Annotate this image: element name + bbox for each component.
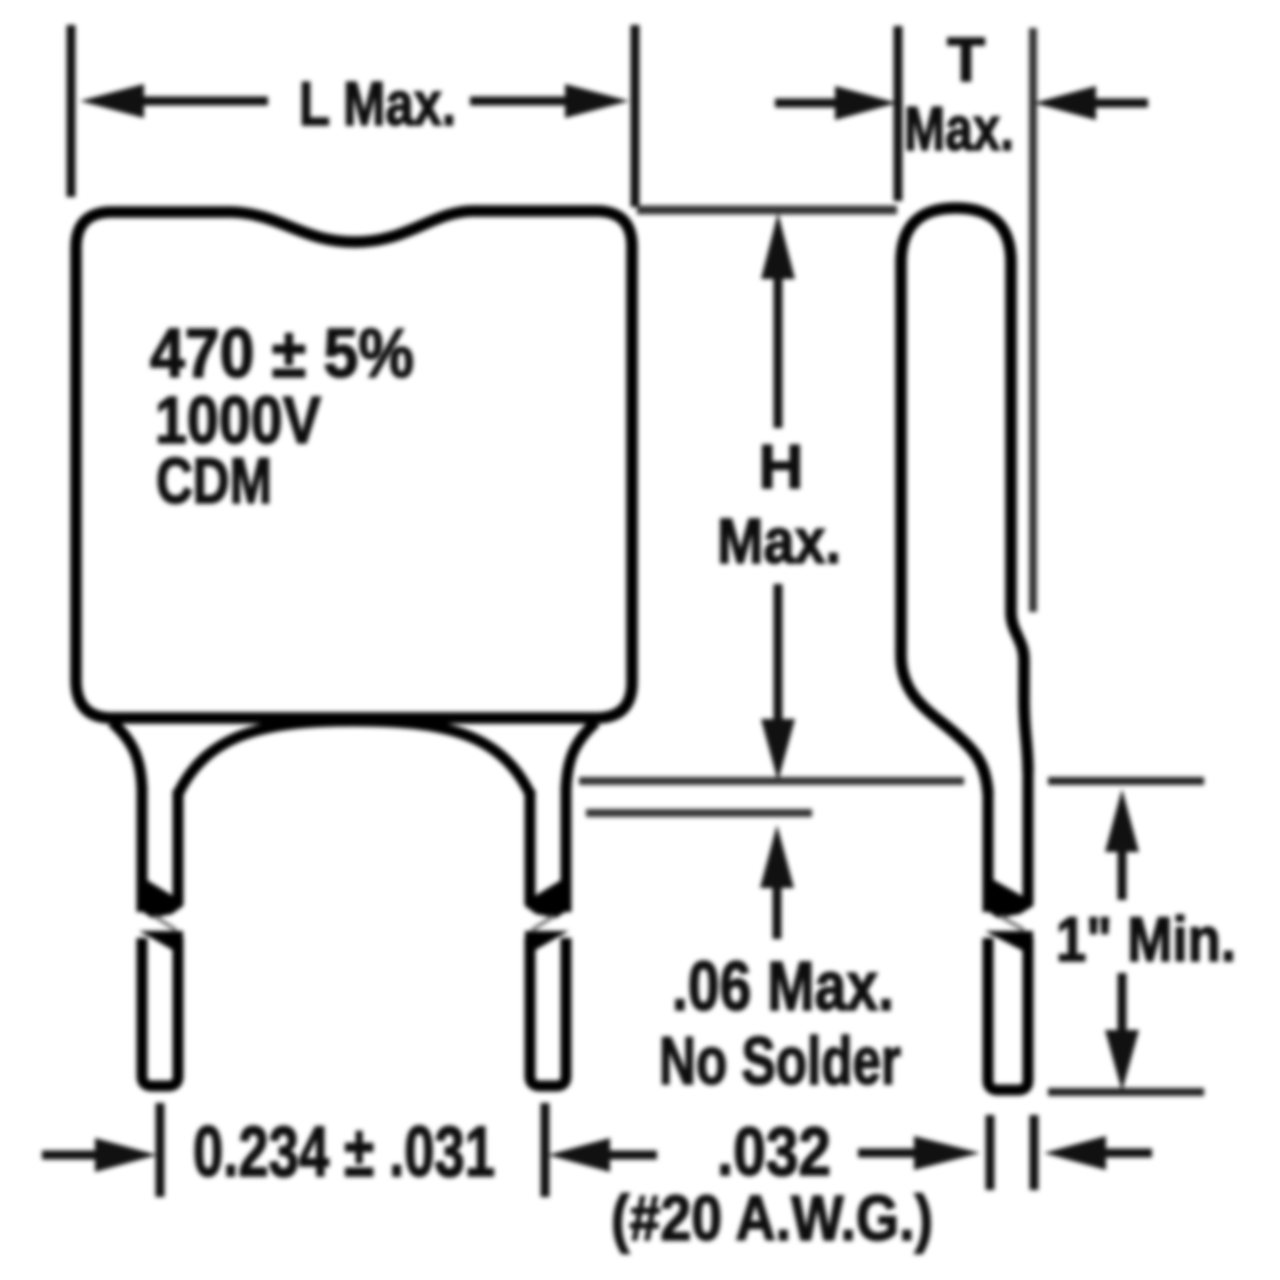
svg-text:.032: .032 [717, 1113, 831, 1190]
L Max right extension line [631, 25, 640, 207]
0.234 right tick [541, 1103, 550, 1197]
lead 1 crimp lower wedge [139, 931, 183, 956]
T Max right arrow [1034, 86, 1096, 120]
svg-text:H: H [759, 433, 804, 502]
inner arch between leads [178, 721, 530, 794]
lead 2 lower segment [530, 938, 566, 1086]
svg-text:0.234 ± .031: 0.234 ± .031 [193, 1113, 495, 1192]
H Max dimension arrow down [774, 584, 783, 729]
lead 2 crimp lower wedge [525, 931, 569, 956]
side lead crimp neck [1000, 916, 1024, 930]
H Max dimension arrow up [761, 213, 795, 279]
capacitor body side view [901, 208, 1028, 794]
side lead lower segment [988, 938, 1028, 1090]
.032 right tick [1030, 1115, 1039, 1190]
svg-text:L Max.: L Max. [299, 70, 456, 139]
.032 right arrow [1044, 1136, 1106, 1170]
1 inch Min bottom tick [1048, 1088, 1204, 1096]
1 inch Min arrow up [1105, 789, 1139, 852]
1 inch Min top tick [1048, 777, 1204, 785]
lead 2 upper segment [561, 786, 572, 912]
svg-text:(#20 A.W.G.): (#20 A.W.G.) [611, 1182, 933, 1254]
lead 2 crimp upper wedge [525, 874, 571, 918]
svg-text:CDM: CDM [156, 444, 272, 517]
svg-text:Max.: Max. [904, 95, 1014, 164]
side lead crimp lower wedge [985, 931, 1033, 956]
capacitor body front view [76, 211, 632, 718]
lead 1 crimp upper wedge [137, 874, 183, 918]
L Max dimension line left arrow [80, 84, 144, 118]
svg-text:Max.: Max. [717, 505, 841, 577]
L Max left extension line [67, 25, 76, 197]
svg-text:470 ± 5%: 470 ± 5% [150, 314, 414, 392]
.06 Max arrow [760, 825, 794, 888]
lead 2 crimp neck [532, 916, 554, 930]
T Max left arrow [775, 99, 843, 108]
svg-text:1" Min.: 1" Min. [1056, 905, 1236, 975]
top reference line from body to side view [637, 206, 897, 215]
lead 2 taper (front view right) [566, 722, 596, 790]
lead 1 taper (front view left) [112, 722, 142, 790]
lead 1 upper segment [137, 786, 148, 912]
lead 1 lower segment [142, 938, 178, 1086]
svg-text:T: T [947, 26, 985, 95]
svg-text:.06 Max.: .06 Max. [672, 947, 894, 1025]
T Max right extension line [1029, 28, 1037, 612]
.032 left tick [986, 1115, 995, 1190]
no-solder reference line [586, 809, 812, 817]
0.234 right arrow [548, 1138, 610, 1172]
L Max dimension line right arrow [470, 97, 586, 106]
side lead crimp upper wedge [983, 874, 1033, 918]
1 inch Min arrow down [1118, 973, 1127, 1039]
0.234 left tick [156, 1103, 165, 1197]
lead 1 crimp neck [154, 916, 176, 930]
0.234 left arrow [42, 1151, 104, 1160]
T Max left extension line [894, 26, 903, 201]
.032 left arrow [858, 1149, 914, 1158]
side lead upper segment [983, 792, 994, 912]
svg-text:No Solder: No Solder [659, 1023, 901, 1099]
seating plane reference line [579, 777, 964, 785]
